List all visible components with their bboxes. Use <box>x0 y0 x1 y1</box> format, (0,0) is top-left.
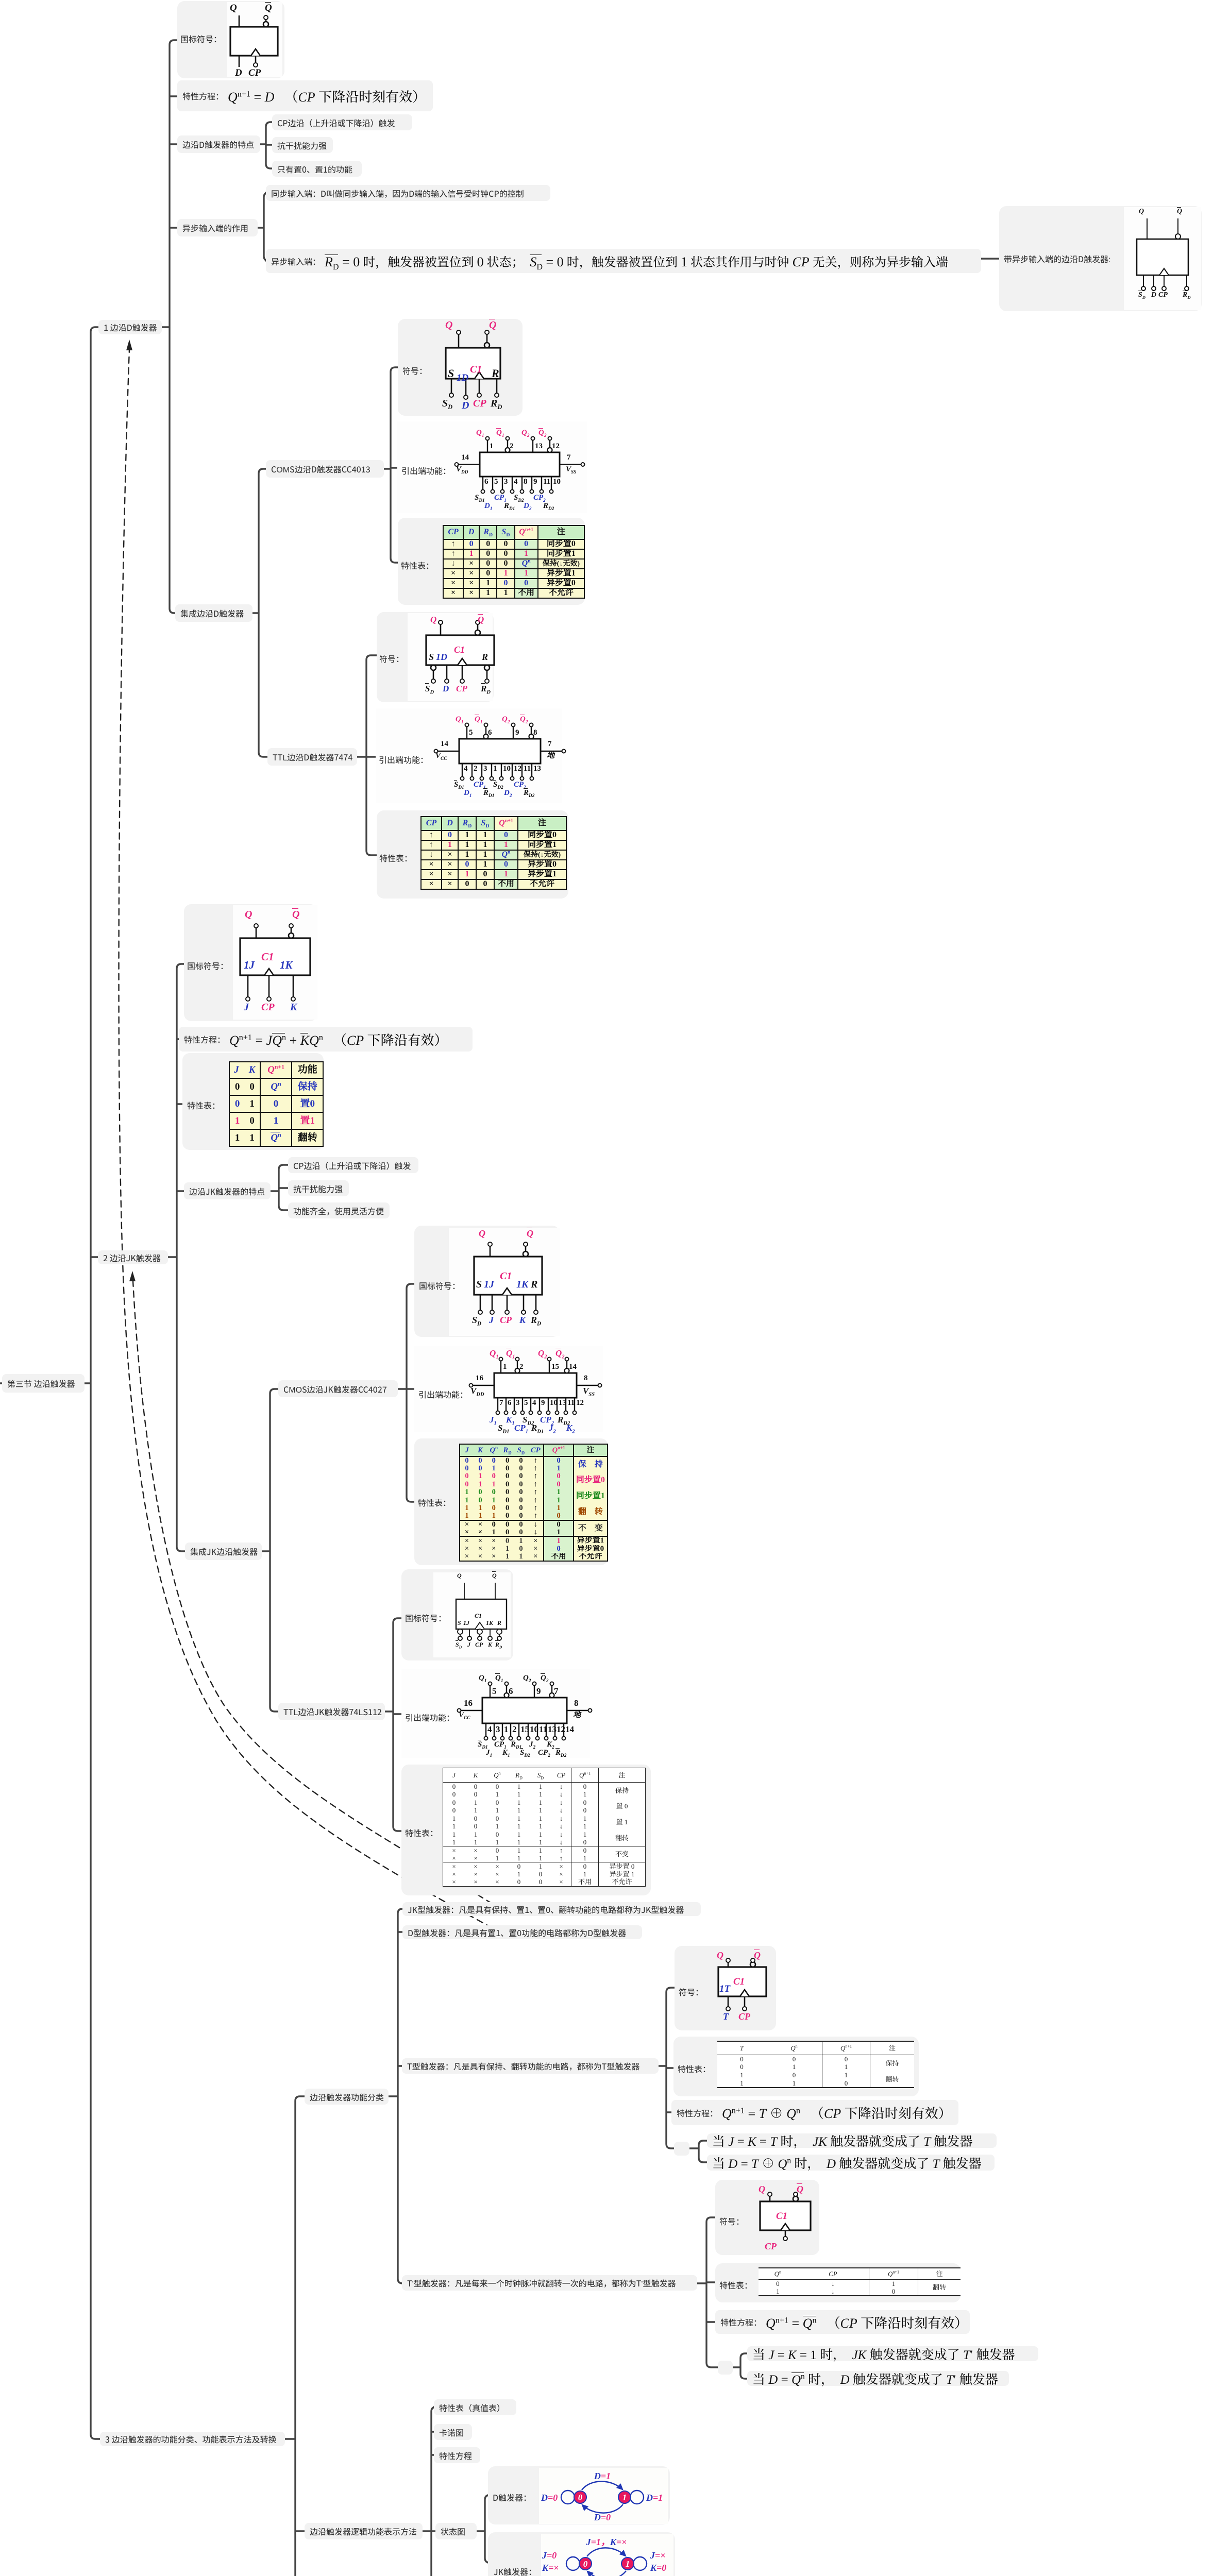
card CC4013 characteristic table 特性表 <box>398 518 585 605</box>
node JK型触发器定义 <box>402 1902 701 1916</box>
pin 4 <box>485 1723 486 1737</box>
pin Qbar <box>795 2196 797 2197</box>
node CP边沿触发 JK <box>288 1157 418 1173</box>
wire bracket classification <box>389 1909 402 2283</box>
flip-flop body <box>446 348 500 379</box>
pin 8 <box>531 726 532 734</box>
svg-text:J=1，K=×: J=1，K=× <box>586 2537 627 2547</box>
pin RD <box>535 1295 537 1310</box>
svg-text:J=0: J=0 <box>542 2550 557 2561</box>
pin Q <box>464 1583 465 1599</box>
pin RD <box>1186 275 1187 286</box>
node 3 功能分类、表示方法及转换 <box>100 2432 285 2446</box>
node 同步输入端 <box>266 185 550 201</box>
wire self-loop 0 <box>561 2490 575 2504</box>
pin 7 <box>497 1398 498 1411</box>
svg-text:1: 1 <box>622 2493 627 2502</box>
wire bracket repr methods <box>423 2407 439 2576</box>
wire state arc bottom <box>587 2571 626 2576</box>
wire bracket T note pair <box>689 2141 707 2162</box>
node JK特性方程 <box>179 1027 473 1052</box>
flip-flop body <box>718 1967 766 1996</box>
wire bracket root to main branches <box>84 327 100 2439</box>
pin Q <box>1147 218 1148 239</box>
pin SDbar <box>460 1634 461 1636</box>
card CC4027 characteristic table 特性表 <box>414 1438 608 1565</box>
pin Q <box>239 15 240 27</box>
pin 2 <box>510 1723 511 1737</box>
pin 15 <box>518 1723 519 1737</box>
node 只有置0置1的功能 <box>272 161 362 177</box>
pin 15 <box>549 1361 550 1373</box>
pin 7 <box>551 1685 552 1693</box>
wire bracket D-FF children <box>162 40 177 613</box>
wire bracket JK children <box>168 964 185 1551</box>
wire bracket T children <box>659 1988 675 2148</box>
pin CP <box>781 2224 790 2230</box>
wire bracket async inputs <box>258 193 268 261</box>
pin 10 <box>551 477 552 490</box>
card T characteristic table 特性表 <box>673 2037 919 2096</box>
pin 12 <box>554 1723 555 1737</box>
node CP边沿触发 <box>272 114 412 130</box>
wire self-loop 1 <box>633 2557 647 2570</box>
node 当D=Qn坝 <box>747 2371 1009 2386</box>
node TTL边沿JK触发器74LS112 <box>278 1703 385 1720</box>
node T'特性方程 <box>715 2310 970 2334</box>
wire self-loop 0 <box>566 2557 580 2570</box>
card CC4027 IEC symbol 国标符号 <box>414 1226 560 1337</box>
pin J <box>247 975 249 997</box>
state node 0 <box>574 2491 586 2503</box>
card 74LS112 pinout 引出端功能 <box>401 1669 590 1758</box>
pin 7 <box>560 464 581 465</box>
pin Q <box>256 928 257 938</box>
node 当J=K=1 <box>747 2346 1038 2361</box>
pin 5 <box>522 1398 523 1411</box>
node 2 边沿JK触发器 <box>98 1250 168 1264</box>
pin 3 <box>514 1398 515 1411</box>
pin 9 <box>531 477 532 490</box>
pin CP <box>502 1288 512 1295</box>
card CC4013 symbol 符号 <box>398 319 523 416</box>
pin 3 <box>481 764 482 777</box>
IC package body <box>494 1373 577 1398</box>
svg-text:K=0: K=0 <box>650 2563 666 2573</box>
pin 6 <box>506 1398 507 1411</box>
pin Q <box>490 1246 491 1257</box>
card CC4013 pinout 引出端功能 <box>397 421 587 513</box>
pin J <box>492 1295 493 1310</box>
node T型触发器定义 <box>402 2058 659 2074</box>
wire bracket 7474 children <box>357 655 377 855</box>
pin 9 <box>539 1398 540 1411</box>
wire bracket CC4027 children <box>398 1284 414 1502</box>
svg-text:D=1: D=1 <box>646 2493 663 2503</box>
wire bracket D-FF features <box>260 122 272 168</box>
node 当D=T⊕Qn <box>707 2155 995 2171</box>
node 卡诺图 <box>434 2424 472 2440</box>
pin 11 <box>565 1398 566 1411</box>
pin 2 <box>517 1361 518 1368</box>
state node 1 <box>618 2491 631 2503</box>
pin 14 <box>437 751 459 752</box>
pin SDbar <box>433 670 434 679</box>
pin 12 <box>549 440 550 448</box>
pin Q1bar <box>486 334 488 343</box>
pin 12 <box>512 764 513 777</box>
pin 8 <box>577 1385 598 1386</box>
wire state arc top <box>587 2548 626 2556</box>
card 7474 characteristic table 特性表 <box>377 810 568 899</box>
pin Qbar <box>1177 218 1178 234</box>
node 特性方程 D <box>177 80 433 111</box>
card JK状态图 <box>488 2532 675 2576</box>
pin CP <box>475 372 484 379</box>
node 1 边沿D触发器 <box>98 320 162 334</box>
node 边沿JK触发器的特点 <box>184 1182 271 1199</box>
pin 5 <box>466 726 467 739</box>
pin Qbar <box>525 1246 527 1251</box>
pin 1 <box>502 1723 503 1737</box>
pin CP <box>264 969 274 975</box>
pin 5 <box>492 477 493 490</box>
node COMS边沿D触发器CC4013 <box>266 460 384 478</box>
pin CP <box>475 1622 484 1629</box>
node 功能齐全使用灵活方便 <box>288 1202 390 1218</box>
pin Q <box>728 1962 729 1967</box>
pin K <box>490 1629 491 1636</box>
flip-flop body <box>456 1599 507 1629</box>
pin 14 <box>563 1723 564 1737</box>
wire bracket JK features <box>271 1165 288 1210</box>
card D-FF IEC symbol 国标符号 <box>177 1 284 78</box>
pin 11 <box>521 764 523 777</box>
pin D <box>1153 275 1154 286</box>
node 边沿触发器功能分类 <box>305 2089 389 2105</box>
card T' symbol 符号 <box>715 2180 819 2255</box>
pin 4 <box>512 477 513 490</box>
pin Q <box>769 2196 771 2201</box>
node root 第三节 边沿触发器 <box>2 1374 85 1393</box>
pin CP <box>1159 268 1169 275</box>
pin 16 <box>473 1385 494 1386</box>
node D型触发器定义 <box>402 1925 642 1939</box>
pin 16 <box>461 1710 482 1711</box>
pin 2 <box>507 440 508 448</box>
pin 6 <box>482 477 483 490</box>
pin 14 <box>566 1361 567 1368</box>
pin Qbar <box>265 20 267 22</box>
pin Q <box>440 624 442 635</box>
pin 5 <box>490 1685 491 1698</box>
wire bracket state diagrams <box>477 2495 490 2563</box>
flip-flop body <box>230 27 278 56</box>
card T' characteristic table 特性表 <box>715 2263 961 2302</box>
pin 6 <box>485 726 486 734</box>
wire into root <box>0 1382 2 1384</box>
node TTL边沿D触发器7474 <box>267 748 357 766</box>
svg-text:0: 0 <box>583 2559 588 2569</box>
pin 6 <box>506 1685 507 1693</box>
pin RDbar <box>486 670 488 679</box>
node 特性方程 leaf <box>434 2447 480 2463</box>
node 边沿D触发器的特点 <box>177 135 260 153</box>
pin Qbar <box>495 1583 496 1599</box>
pin 8 <box>567 1710 588 1711</box>
pin SD <box>480 1295 481 1310</box>
pin 4 <box>462 764 463 777</box>
pin K <box>523 1295 525 1310</box>
wire bracket 74LS112 children <box>385 1618 401 1831</box>
pin D <box>446 665 448 679</box>
pin RD <box>496 379 498 393</box>
flip-flop body <box>240 938 310 975</box>
node 异步输入端 <box>266 249 981 273</box>
pin 9 <box>534 1685 535 1698</box>
wire bracket Tp note pair <box>733 2353 747 2379</box>
pin T <box>728 1996 729 2007</box>
pin CP <box>458 658 467 665</box>
pin CP <box>251 49 260 56</box>
flip-flop body <box>426 635 494 665</box>
node CMOS边沿JK触发器CC4027 <box>278 1380 398 1397</box>
pin 7 <box>541 751 562 752</box>
pin 11 <box>541 477 542 490</box>
pin CP <box>740 1990 749 1996</box>
IC package body <box>482 1698 567 1723</box>
node 集成边沿D触发器 <box>175 604 252 622</box>
wire bracket section3 children <box>285 2096 305 2576</box>
pin 11 <box>537 1723 538 1737</box>
state node 1 <box>621 2557 634 2570</box>
pin 9 <box>513 726 514 739</box>
svg-text:1: 1 <box>626 2559 630 2569</box>
card JK IEC symbol 国标符号 <box>184 904 317 1021</box>
pin 13 <box>557 1398 558 1411</box>
pin 12 <box>574 1398 575 1411</box>
node 状态图 <box>435 2523 477 2539</box>
pin D <box>465 379 467 395</box>
IC package body <box>459 739 541 764</box>
svg-text:D=1: D=1 <box>594 2471 611 2481</box>
card 7474 pinout 引出端功能 <box>376 708 562 803</box>
pin 2 <box>471 764 473 777</box>
pin Qbar <box>477 624 479 630</box>
wire bracket CC4013 children <box>384 367 398 563</box>
node 特性表真值表 <box>434 2399 516 2415</box>
pin 13 <box>532 440 533 452</box>
pin 13 <box>546 1723 547 1737</box>
wire state arc top <box>582 2481 622 2490</box>
pin Qbar <box>752 1962 754 1962</box>
node T特性方程 <box>671 2100 958 2125</box>
wire to async card <box>981 258 999 259</box>
pin 8 <box>521 477 523 490</box>
card T symbol 符号 <box>675 1946 776 2030</box>
svg-text:J=×: J=× <box>650 2550 666 2561</box>
svg-text:D=0: D=0 <box>541 2493 558 2503</box>
pin 1 <box>491 764 492 777</box>
pin 4 <box>530 1398 531 1411</box>
pin 10 <box>528 1723 529 1737</box>
card 带异步输入端的边沿D触发器 <box>999 206 1202 311</box>
flip-flop body <box>474 1257 542 1295</box>
node 边沿触发器逻辑功能表示方法 <box>305 2523 423 2539</box>
svg-text:D=0: D=0 <box>594 2512 611 2522</box>
wire state arc bottom <box>582 2504 623 2513</box>
wire bracket integrated D <box>252 469 267 757</box>
card 74LS112 symbol 国标符号 <box>401 1569 513 1660</box>
node 抗干扰能力强 <box>272 137 333 153</box>
pin 1 <box>487 440 488 452</box>
pin K <box>293 975 294 997</box>
pin RDbar <box>499 1634 500 1636</box>
card 74LS112 characteristic table 特性表 <box>401 1765 651 1895</box>
pin SD <box>451 379 452 393</box>
pin Qbar <box>291 928 292 933</box>
flip-flop body <box>760 2201 811 2230</box>
pin 1 <box>500 1361 501 1373</box>
wire dashed link JK-type to JK flip-flop <box>133 1281 492 1904</box>
wire dashed link D-type to D flip-flop <box>119 349 492 1928</box>
pin 3 <box>494 1723 495 1737</box>
card D状态图 <box>488 2466 670 2524</box>
pin 14 <box>458 464 480 465</box>
node blob T' <box>718 2361 733 2375</box>
node 当J=K=T <box>707 2133 997 2148</box>
wire bracket integrated JK <box>262 1389 278 1711</box>
pin J <box>469 1629 470 1636</box>
wire self-loop 1 <box>630 2490 644 2504</box>
pin D <box>239 56 240 67</box>
node 抗干扰能力强 JK <box>288 1180 349 1196</box>
card CC4027 pinout 引出端功能 <box>414 1346 603 1432</box>
node blob T <box>674 2142 689 2156</box>
flip-flop body <box>1137 239 1188 275</box>
pin 3 <box>502 477 503 490</box>
svg-text:K=×: K=× <box>542 2563 559 2573</box>
pin 13 <box>531 764 532 777</box>
wire bracket Tp children <box>697 2217 718 2367</box>
node T'型触发器定义 <box>402 2275 697 2291</box>
pin SD <box>1143 275 1144 286</box>
node 异步输入端的作用 <box>177 219 258 236</box>
pin Q1 <box>458 334 460 348</box>
node 集成JK边沿触发器 <box>185 1543 262 1560</box>
state node 0 <box>579 2557 592 2570</box>
svg-text:0: 0 <box>578 2493 583 2502</box>
IC package body <box>480 452 560 477</box>
pin 10 <box>548 1398 549 1411</box>
card JK characteristic table 特性表 <box>182 1053 324 1150</box>
pin 10 <box>501 764 502 777</box>
card 7474 symbol 符号 <box>377 612 494 702</box>
